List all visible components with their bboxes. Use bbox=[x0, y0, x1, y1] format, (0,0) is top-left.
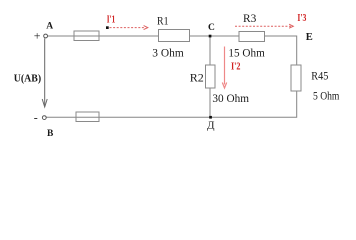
svg-text:R45: R45 bbox=[311, 68, 328, 82]
svg-text:5 Ohm: 5 Ohm bbox=[313, 89, 340, 103]
svg-text:A: A bbox=[46, 22, 53, 32]
svg-text:C: C bbox=[208, 23, 215, 33]
svg-text:15 Ohm: 15 Ohm bbox=[228, 46, 265, 60]
svg-text:30 Ohm: 30 Ohm bbox=[212, 91, 249, 105]
svg-text:I'3: I'3 bbox=[297, 12, 306, 24]
svg-text:+: + bbox=[34, 28, 41, 42]
svg-text:R1: R1 bbox=[157, 13, 169, 27]
svg-text:E: E bbox=[306, 32, 313, 43]
svg-text:U(АВ): U(АВ) bbox=[14, 72, 42, 84]
svg-text:Д: Д bbox=[207, 120, 215, 132]
svg-text:R2: R2 bbox=[190, 70, 204, 84]
svg-text:В: В bbox=[47, 129, 54, 139]
svg-text:R3: R3 bbox=[243, 11, 256, 25]
svg-text:-: - bbox=[34, 111, 38, 125]
svg-text:I'1: I'1 bbox=[107, 13, 116, 25]
svg-text:I'2: I'2 bbox=[231, 61, 241, 73]
svg-text:3 Ohm: 3 Ohm bbox=[152, 45, 184, 59]
